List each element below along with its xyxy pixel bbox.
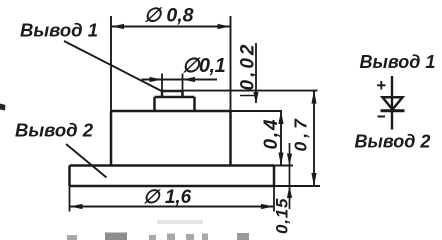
dimension 0,02: vertical line with down arrow	[255, 43, 257, 103]
cut-off caption letter tops along bottom edge	[67, 233, 249, 240]
extension line: base right extended down (for 1,6)	[273, 186, 275, 212]
extension line: bump bottom short (for 0,02)	[240, 95, 257, 97]
scan artifact: faint smudge above caption	[157, 220, 203, 224]
svg-text:Вывод 2: Вывод 2	[355, 132, 431, 152]
diode symbol: cathode bar	[381, 109, 405, 112]
dimension 0,8: dimension line with arrows	[111, 26, 231, 28]
diode symbol: minus sign	[378, 116, 386, 118]
svg-text:∅ 0,8: ∅ 0,8	[144, 5, 194, 27]
svg-text:Вывод 1: Вывод 1	[20, 20, 98, 41]
diode symbol: plus sign	[377, 81, 386, 90]
crystal/contact layer on body top	[155, 97, 195, 111]
svg-text:∅ 1,6: ∅ 1,6	[143, 187, 192, 208]
svg-text:0,15: 0,15	[273, 198, 292, 234]
svg-text:∅0,1: ∅0,1	[182, 55, 226, 77]
svg-text:0,4: 0,4	[261, 118, 282, 150]
extension line: base bottom extended right (for 0,7 / 0,15)	[274, 185, 320, 187]
base disc (cathode flange)	[70, 166, 275, 187]
svg-text:0,7: 0,7	[291, 115, 311, 151]
svg-text:0,02: 0,02	[238, 42, 259, 91]
extension line: base left extended down (for 1,6)	[69, 186, 71, 212]
extension line: base top extended right (for 0,4 / 0,15)	[274, 165, 293, 167]
dimension 0,1: dimension line, outside arrows	[142, 79, 218, 81]
diode symbol: anode/cathode lead wire	[391, 76, 393, 130]
dimension 1,6: dimension line with arrows	[70, 206, 275, 208]
body outline (package cylinder, side view)	[111, 111, 231, 166]
svg-text:Вывод 1: Вывод 1	[360, 52, 436, 72]
top contact bump (anode mesa)	[162, 91, 183, 97]
svg-text:Вывод 2: Вывод 2	[15, 120, 94, 141]
dimension 0,8: extension lines up	[110, 16, 112, 111]
leader line to base	[66, 144, 107, 178]
dimension 0,4: dimension line with arrows	[280, 111, 282, 166]
diode symbol: triangle (anode)	[383, 97, 403, 109]
dimension 0,1: extension lines up from bump	[161, 74, 163, 92]
dimension 0,7: dimension line with arrows	[313, 91, 315, 186]
dimension 0,15: pass-through line with outside arrows	[289, 143, 291, 209]
extension line: body top extended right (for 0,4)	[231, 110, 283, 112]
scan artifact: left edge dash	[0, 104, 6, 111]
extension line: bump top extended right (for 0,02 / 0,7)	[183, 90, 318, 92]
leader line to bump	[64, 41, 162, 91]
